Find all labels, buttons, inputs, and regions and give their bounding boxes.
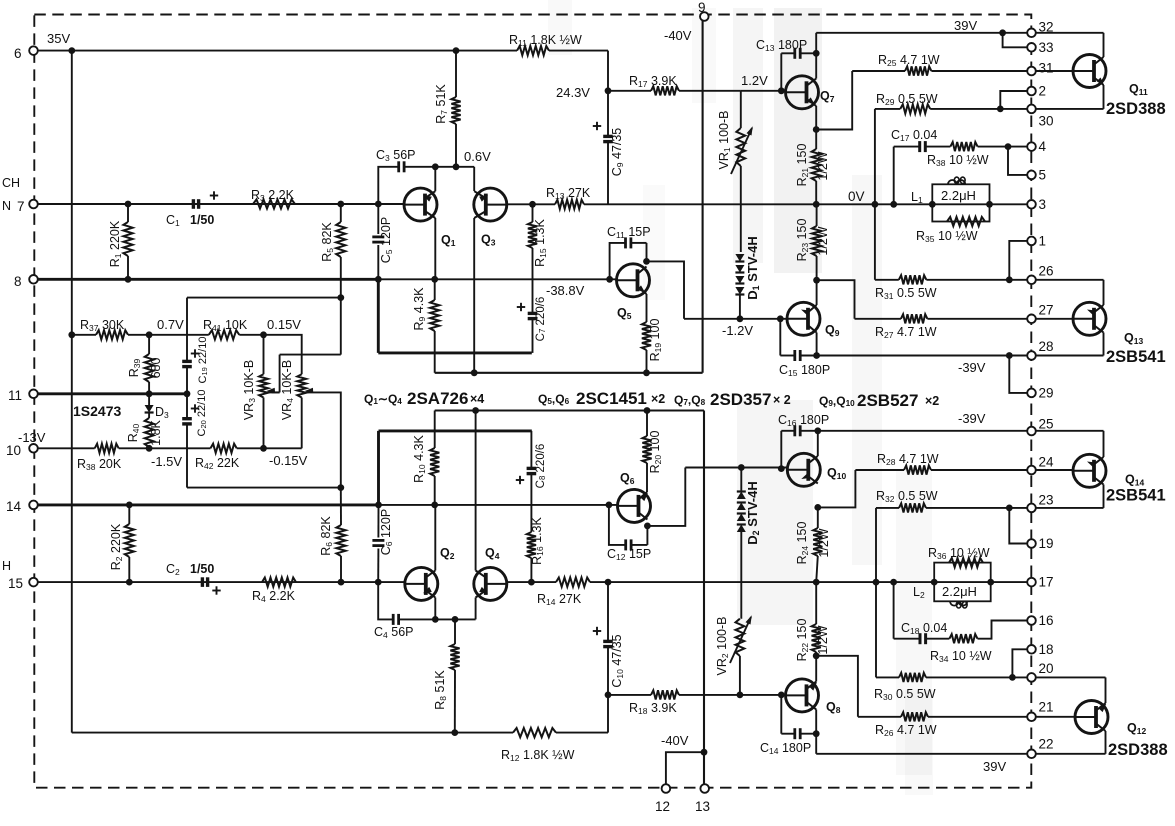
svg-text:-0.15V: -0.15V bbox=[269, 453, 308, 468]
capacitor C13 180P bbox=[780, 53, 782, 91]
terminal 14 bbox=[29, 501, 38, 510]
junction Q9 emitter R23 bbox=[813, 277, 820, 284]
svg-text:-40V: -40V bbox=[664, 28, 692, 43]
wire R14 row to output rail bbox=[507, 581, 556, 583]
resistor R21 150 1/2W bbox=[815, 130, 817, 150]
junction 35V rail to R7 bbox=[453, 47, 460, 54]
wire R18 row bbox=[608, 694, 651, 696]
wire terminal 5 bracket bbox=[1008, 147, 1031, 175]
wire C19 chain bbox=[186, 298, 188, 362]
svg-text:C19 22/10: C19 22/10 bbox=[197, 337, 209, 384]
svg-text:R15 1.3K: R15 1.3K bbox=[533, 218, 548, 266]
svg-text:R18 3.9K: R18 3.9K bbox=[629, 701, 677, 716]
wire R25 row bbox=[852, 70, 905, 72]
svg-text:2: 2 bbox=[1039, 84, 1047, 99]
svg-text:23: 23 bbox=[1039, 492, 1054, 507]
junction R5/C19 node bbox=[337, 294, 344, 301]
svg-text:2.2μH: 2.2μH bbox=[941, 188, 976, 203]
svg-text:R21 150: R21 150 bbox=[795, 144, 810, 187]
diode D1 STV-4H bbox=[735, 254, 744, 262]
junction R13/R15 node bbox=[529, 201, 536, 208]
svg-text:R38 10 ½W: R38 10 ½W bbox=[927, 153, 989, 168]
terminal 17 bbox=[1027, 578, 1036, 587]
svg-text:R38 20K: R38 20K bbox=[77, 457, 122, 472]
svg-text:12: 12 bbox=[655, 799, 670, 814]
wire terminal 7 row bbox=[34, 203, 405, 205]
svg-text:2SB527: 2SB527 bbox=[857, 391, 918, 410]
transistor Q10 2SB527 bbox=[787, 453, 820, 486]
terminal 28 bbox=[1027, 351, 1036, 360]
resistor R26 4.7 1W bbox=[901, 712, 928, 721]
terminal 1 bbox=[1027, 237, 1036, 246]
svg-text:C11 15P: C11 15P bbox=[607, 225, 651, 240]
wire Q13 emitter lead bbox=[1103, 280, 1105, 305]
svg-text:C5 120P: C5 120P bbox=[379, 217, 394, 263]
terminal 32 bbox=[1027, 29, 1036, 38]
svg-text:C4 56P: C4 56P bbox=[374, 625, 413, 640]
junction terminal 12 bracket bbox=[701, 749, 708, 756]
capacitor C6 120P bbox=[372, 539, 384, 542]
wire Q3 emitter riser bbox=[473, 167, 475, 191]
svg-text:Q14: Q14 bbox=[1125, 473, 1144, 488]
potentiometer VR2 100-B bbox=[736, 619, 745, 656]
inductor L1 2.2uH box bbox=[932, 184, 989, 221]
resistor R41 10K bbox=[209, 330, 240, 339]
svg-text:2SD388: 2SD388 bbox=[1106, 100, 1166, 118]
capacitor C9 47/35 bbox=[607, 91, 609, 137]
svg-text:C1: C1 bbox=[166, 213, 180, 228]
svg-text:5: 5 bbox=[1039, 167, 1047, 182]
capacitor C15 180P bbox=[779, 319, 781, 356]
resistor R24 150 1/2W bbox=[817, 507, 819, 528]
terminal 26 bbox=[1027, 276, 1036, 285]
svg-text:4: 4 bbox=[1039, 139, 1047, 154]
wire R37 row bbox=[71, 334, 96, 336]
capacitor C11 15P bbox=[610, 243, 626, 279]
wire R12 row bbox=[72, 732, 513, 734]
junction D1 bottom bbox=[737, 315, 744, 322]
terminal 7 bbox=[29, 200, 38, 209]
junction Q4 collector on -40V wire bbox=[472, 407, 479, 414]
transistor Q5 2SC1451 bbox=[617, 264, 650, 297]
resistor R4 2.2K bbox=[262, 578, 296, 587]
resistor R36 10 halfW on L2 box bbox=[949, 558, 983, 567]
svg-text:31: 31 bbox=[1039, 61, 1054, 76]
svg-text:3: 3 bbox=[1039, 197, 1047, 212]
wire terminal 4 link bbox=[1008, 146, 1032, 148]
wire terminal 18 bracket bbox=[1012, 649, 1031, 677]
capacitor C17 0.04 bbox=[893, 147, 895, 205]
junction terminal5 bracket bbox=[1005, 143, 1012, 150]
junction Q8 collector C14 bbox=[813, 730, 820, 737]
svg-text:Q9: Q9 bbox=[825, 323, 840, 338]
junction Q10 emitter R24 bbox=[814, 504, 821, 511]
resistor R25 4.7 1W bbox=[905, 66, 931, 75]
resistor R31 0.5 5W bbox=[899, 275, 927, 284]
junction Q7 emitter bbox=[813, 126, 820, 133]
resistor R7 51K bbox=[455, 51, 457, 97]
svg-text:20: 20 bbox=[1039, 661, 1054, 676]
svg-text:R24 150: R24 150 bbox=[795, 522, 810, 565]
terminal 12 bbox=[662, 784, 671, 793]
junction R5 top bbox=[337, 201, 344, 208]
svg-text:2.2μH: 2.2μH bbox=[942, 584, 977, 599]
svg-text:×2: ×2 bbox=[651, 392, 665, 406]
junction terminal29 bracket bbox=[1006, 352, 1013, 359]
junction R2 top bbox=[126, 502, 133, 509]
wire R31 row bbox=[875, 279, 899, 281]
svg-text:R4 2.2K: R4 2.2K bbox=[252, 589, 296, 604]
svg-text:1/2W: 1/2W bbox=[816, 151, 830, 180]
junction L1 right on 0V rail bbox=[986, 201, 993, 208]
junction C13 riser base Q7 bbox=[778, 87, 785, 94]
svg-text:C20 22/10: C20 22/10 bbox=[196, 390, 208, 437]
svg-text:29: 29 bbox=[1039, 385, 1054, 400]
svg-text:24.3V: 24.3V bbox=[556, 85, 590, 100]
wire R27 row bbox=[855, 318, 901, 320]
wire Q12 emitter lead bbox=[1105, 677, 1107, 703]
resistor R2 220K bbox=[128, 505, 130, 524]
junction R6 bottom bbox=[338, 579, 345, 586]
wire 35V drop left rail x72 bbox=[71, 51, 73, 733]
svg-text:Q5: Q5 bbox=[617, 306, 632, 321]
transistor Q3 2SA726 bbox=[474, 188, 507, 221]
resistor R27 4.7 1W bbox=[901, 314, 928, 323]
svg-text:×2: ×2 bbox=[925, 394, 939, 408]
resistor R12 1.8K half W bbox=[513, 728, 556, 737]
svg-text:6: 6 bbox=[14, 46, 22, 61]
capacitor C2 1/50 bbox=[201, 577, 204, 587]
terminal 3 bbox=[1027, 200, 1036, 209]
junction VR3 bottom bbox=[260, 445, 267, 452]
svg-text:25: 25 bbox=[1039, 417, 1054, 432]
junction C6 top bbox=[375, 502, 382, 509]
svg-text:× 2: × 2 bbox=[773, 393, 791, 407]
terminal 11 bbox=[29, 390, 38, 399]
svg-text:1: 1 bbox=[1039, 233, 1047, 248]
svg-text:R37 30K: R37 30K bbox=[80, 318, 125, 333]
svg-text:R1 220K: R1 220K bbox=[108, 220, 123, 267]
resistor R10 4.3K bbox=[434, 476, 436, 505]
svg-text:Q7: Q7 bbox=[820, 89, 835, 104]
junction R2 bottom bbox=[126, 579, 133, 586]
resistor R14 27K bbox=[556, 578, 590, 587]
wire terminal 19 bracket bbox=[1009, 508, 1031, 544]
wire terminal 29 bracket bbox=[1009, 356, 1031, 393]
svg-text:C12 15P: C12 15P bbox=[607, 547, 651, 562]
transistor Q1 2SA726 bbox=[404, 188, 437, 221]
wire R26 row bbox=[858, 716, 901, 718]
svg-text:Q11: Q11 bbox=[1129, 82, 1148, 97]
svg-text:VR2 100-B: VR2 100-B bbox=[715, 617, 730, 676]
svg-text:680: 680 bbox=[149, 358, 163, 379]
svg-text:R39: R39 bbox=[127, 358, 142, 377]
resistor R5 82K bbox=[340, 204, 342, 222]
svg-text:C2: C2 bbox=[166, 562, 180, 577]
wire Q9 emitter lead bbox=[816, 280, 818, 305]
junction Q1 collector R9 bbox=[431, 276, 438, 283]
terminal 31 bbox=[1027, 67, 1036, 76]
wire Q11 emitter lead bbox=[1103, 85, 1105, 109]
svg-text:Q8: Q8 bbox=[826, 700, 841, 715]
svg-text:R32 0.5 5W: R32 0.5 5W bbox=[876, 489, 938, 504]
terminal 30 bbox=[1027, 105, 1036, 114]
wire C20 to R6 node bbox=[187, 487, 341, 489]
junction R21 bottom on 0V rail bbox=[813, 201, 820, 208]
svg-text:C7 220/6: C7 220/6 bbox=[535, 297, 547, 342]
terminal 27 bbox=[1027, 315, 1036, 324]
svg-text:D1 STV-4H: D1 STV-4H bbox=[745, 236, 761, 299]
wire emitter rail upper channel bbox=[377, 279, 380, 353]
junction R40 bottom bbox=[146, 445, 153, 452]
junction C10 bottom R18 bbox=[605, 692, 612, 699]
wire -40V distribution top channel bbox=[435, 372, 703, 374]
junction R6 top VR4 wiper bbox=[337, 484, 344, 491]
diode D3 bbox=[148, 394, 150, 405]
junction R19 bottom bbox=[643, 369, 650, 376]
wire Q14 collector lead bbox=[1103, 485, 1105, 508]
wire R28 row bbox=[855, 469, 904, 471]
svg-text:2SB541: 2SB541 bbox=[1106, 487, 1166, 505]
wire R32 row bbox=[876, 507, 899, 509]
svg-text:C8 220/6: C8 220/6 bbox=[535, 444, 547, 489]
junction R1 top bbox=[125, 201, 132, 208]
resistor R39 680 bbox=[145, 354, 154, 382]
svg-text:1.2V: 1.2V bbox=[741, 73, 768, 88]
junction Q8 emitter bbox=[813, 652, 820, 659]
capacitor C14 180P bbox=[780, 695, 782, 734]
wire -39V row 25 bbox=[818, 430, 1032, 432]
wire Q6 collector to D2 node bbox=[647, 468, 685, 526]
resistor R13 27K bbox=[555, 200, 584, 209]
svg-text:C14 180P: C14 180P bbox=[760, 741, 811, 756]
resistor R22 150 1/2W bbox=[815, 652, 817, 656]
resistor R30 0.5 5W bbox=[899, 673, 926, 682]
wire Q13 collector lead bbox=[1103, 333, 1105, 356]
svg-text:15: 15 bbox=[8, 576, 23, 591]
junction C16 right Q10 collector bbox=[814, 427, 821, 434]
svg-text:7: 7 bbox=[17, 199, 25, 214]
junction C15 riser on Q9 base bbox=[777, 315, 784, 322]
resistor R20 100 bbox=[646, 411, 648, 437]
transistor Q12 2SD388 bbox=[1075, 701, 1108, 734]
svg-text:R2 220K: R2 220K bbox=[109, 523, 124, 570]
junction Q1 emitter top bbox=[432, 163, 439, 170]
junction R10 bottom Q2 collector bbox=[431, 502, 438, 509]
resistor R23 150 1/2W bbox=[816, 204, 818, 226]
junction C17 riser 0V rail bbox=[890, 201, 897, 208]
wire terminal 11 row bbox=[34, 392, 188, 395]
dashed border frame bbox=[34, 15, 1031, 788]
wire R29 riser to 0V bbox=[874, 109, 876, 280]
junction R29 riser 0V rail bbox=[872, 201, 879, 208]
wire Q14 emitter lead bbox=[1103, 431, 1105, 457]
svg-text:-39V: -39V bbox=[958, 360, 986, 375]
svg-text:-39V: -39V bbox=[958, 411, 986, 426]
wire terminal 14 row bbox=[34, 503, 379, 506]
svg-text:32: 32 bbox=[1039, 19, 1054, 34]
svg-text:-40V: -40V bbox=[661, 733, 689, 748]
wire Q7 collector to 39V rail bbox=[815, 53, 817, 78]
svg-text:R25 4.7 1W: R25 4.7 1W bbox=[878, 53, 940, 68]
svg-text:Q9,Q10: Q9,Q10 bbox=[819, 394, 855, 408]
svg-text:R19 100: R19 100 bbox=[648, 319, 663, 362]
svg-text:-1.5V: -1.5V bbox=[151, 454, 182, 469]
capacitor C16 180P bbox=[780, 431, 782, 469]
junction on 35V rail at x72 bbox=[68, 47, 75, 54]
terminal 20 bbox=[1027, 673, 1036, 682]
capacitor C8 220/6 bbox=[530, 474, 532, 479]
svg-text:R22 150: R22 150 bbox=[795, 619, 810, 662]
junction L2 right on output rail bbox=[987, 579, 994, 586]
svg-text:C17 0.04: C17 0.04 bbox=[891, 128, 937, 143]
svg-text:8: 8 bbox=[14, 274, 22, 289]
junction R8 bottom bbox=[451, 729, 458, 736]
resistor R18 3.9K bbox=[651, 690, 679, 699]
transistor Q9 2SB527 bbox=[787, 302, 820, 335]
svg-text:R31 0.5 5W: R31 0.5 5W bbox=[875, 286, 937, 301]
wire R30 to terminal 20 bbox=[926, 676, 1032, 678]
svg-text:R26 4.7 1W: R26 4.7 1W bbox=[875, 723, 937, 738]
svg-text:16: 16 bbox=[1039, 613, 1054, 628]
svg-text:33: 33 bbox=[1039, 40, 1054, 55]
svg-text:10: 10 bbox=[6, 443, 21, 458]
terminal 23 bbox=[1027, 504, 1036, 513]
capacitor C20 22/10 bbox=[182, 417, 192, 420]
potentiometer VR1 100-B bbox=[740, 91, 742, 128]
svg-text:C10 47/35: C10 47/35 bbox=[610, 634, 625, 687]
resistor R11 1.8K half W bbox=[517, 46, 549, 55]
svg-text:R17 3.9K: R17 3.9K bbox=[629, 74, 677, 89]
svg-text:-38.8V: -38.8V bbox=[546, 283, 585, 298]
resistor R35 10 halfW on L1 box bbox=[947, 217, 985, 226]
svg-text:0.6V: 0.6V bbox=[464, 149, 491, 164]
svg-text:VR3 10K-B: VR3 10K-B bbox=[242, 360, 257, 420]
terminal 2 bbox=[1027, 87, 1036, 96]
resistor R29 0.5 5W bbox=[900, 104, 930, 113]
svg-text:Q6: Q6 bbox=[620, 471, 635, 486]
wire -40V distribution lower channel bbox=[435, 409, 704, 411]
wire Q12 collector to terminal 22 row bbox=[1105, 731, 1107, 754]
wire terminal 15 row bbox=[34, 581, 405, 583]
wire R5 node to VR3 wiper bbox=[340, 298, 342, 355]
wire terminal 12 bracket bbox=[666, 752, 704, 784]
transistor Q4 2SA726 bbox=[474, 567, 507, 600]
svg-text:R23 150: R23 150 bbox=[795, 219, 810, 262]
terminal 13 bbox=[700, 784, 709, 793]
junction D2 top bbox=[738, 464, 745, 471]
junction D3 top bbox=[146, 390, 153, 397]
capacitor C3 56P bbox=[378, 167, 398, 204]
svg-text:R36 10 ½W: R36 10 ½W bbox=[928, 546, 990, 561]
junction Q6 collector bbox=[644, 523, 651, 530]
svg-text:-1.2V: -1.2V bbox=[722, 323, 753, 338]
wire Q10 collector lead bbox=[817, 431, 819, 456]
svg-text:C3 56P: C3 56P bbox=[376, 148, 415, 163]
wire Q9 emitter to R27 row bbox=[817, 280, 855, 319]
terminal 33 bbox=[1027, 43, 1036, 52]
junction R39 top bbox=[146, 331, 153, 338]
capacitor C5 120P bbox=[372, 235, 384, 238]
terminal 15 bbox=[29, 578, 38, 587]
svg-text:Q12: Q12 bbox=[1127, 721, 1146, 736]
wire Q8 collector to 39V bottom rail bbox=[815, 710, 817, 734]
svg-text:C13 180P: C13 180P bbox=[756, 38, 807, 53]
svg-text:11: 11 bbox=[8, 388, 22, 403]
junction R17/C9 bbox=[605, 87, 612, 94]
svg-text:L1: L1 bbox=[911, 190, 923, 205]
inductor L2 2.2uH box bbox=[934, 563, 991, 602]
capacitor C18 0.04 bbox=[893, 582, 895, 639]
svg-text:R12 1.8K ½W: R12 1.8K ½W bbox=[501, 748, 575, 763]
junction R8 top bbox=[452, 616, 459, 623]
svg-text:R14 27K: R14 27K bbox=[537, 592, 582, 607]
junction C11 riser on Q5 base wire bbox=[606, 276, 613, 283]
resistor R32 0.5 5W bbox=[899, 503, 926, 512]
wire R13 row to 0V rail bbox=[507, 203, 555, 205]
junction VR2 bottom bbox=[737, 692, 744, 699]
terminal 22 bbox=[1027, 750, 1036, 759]
svg-text:2SC1451: 2SC1451 bbox=[576, 389, 647, 408]
wire terminal 8 row bbox=[34, 278, 379, 281]
junction terminal1 bracket on R31 row bbox=[1006, 276, 1013, 283]
junction C18 riser on output rail bbox=[890, 579, 897, 586]
svg-text:R8 51K: R8 51K bbox=[433, 670, 448, 710]
svg-text:N: N bbox=[2, 199, 11, 213]
resistor R42 22K bbox=[211, 444, 237, 453]
wire terminal 2 bracket bbox=[1000, 91, 1031, 109]
wire R17 row bbox=[608, 90, 651, 92]
resistor R6 82K bbox=[340, 488, 342, 525]
svg-text:39V: 39V bbox=[954, 18, 977, 33]
transistor Q14 2SB541 bbox=[1073, 454, 1106, 487]
svg-text:R11 1.8K ½W: R11 1.8K ½W bbox=[509, 33, 582, 48]
junction C10 top on output rail bbox=[605, 579, 612, 586]
svg-text:35V: 35V bbox=[47, 31, 70, 46]
svg-text:R41 10K: R41 10K bbox=[203, 318, 248, 333]
capacitor C4 56P bbox=[378, 582, 393, 619]
junction terminal 19 bracket bbox=[1006, 505, 1013, 512]
svg-text:C9 47/35: C9 47/35 bbox=[610, 128, 625, 177]
transistor Q13 2SB541 bbox=[1073, 302, 1106, 335]
wire R29 row bbox=[875, 108, 900, 110]
terminal 29 bbox=[1027, 389, 1036, 398]
svg-text:-13V: -13V bbox=[18, 430, 46, 445]
junction R7 bottom bbox=[453, 163, 460, 170]
svg-text:1/50: 1/50 bbox=[190, 213, 214, 227]
junction L1 left on 0V rail bbox=[929, 201, 936, 208]
svg-text:C18 0.04: C18 0.04 bbox=[901, 621, 947, 636]
wire Q11 collector lead bbox=[1103, 33, 1105, 57]
junction Q5 collector bbox=[643, 258, 650, 265]
wire 39V bottom rail bbox=[816, 753, 1105, 755]
resistor R19 100 bbox=[646, 294, 648, 322]
junction C3/C5 top bbox=[375, 201, 382, 208]
svg-text:2SD357: 2SD357 bbox=[710, 390, 771, 409]
svg-text:VR4 10K-B: VR4 10K-B bbox=[280, 360, 295, 420]
resistor R38 10 halfW bbox=[950, 142, 977, 151]
resistor R38b 20K bbox=[95, 444, 119, 453]
svg-text:14: 14 bbox=[6, 499, 22, 514]
wire terminal 10 row bbox=[34, 447, 95, 449]
svg-text:24: 24 bbox=[1039, 455, 1055, 470]
junction C19 C20 on terminal 11 row bbox=[184, 390, 191, 397]
svg-text:R16 1.3K: R16 1.3K bbox=[530, 516, 545, 564]
svg-text:R40: R40 bbox=[126, 423, 141, 442]
svg-text:R42 22K: R42 22K bbox=[195, 456, 240, 471]
resistor R17 3.9K bbox=[651, 86, 679, 95]
svg-text:Q10: Q10 bbox=[827, 466, 846, 481]
